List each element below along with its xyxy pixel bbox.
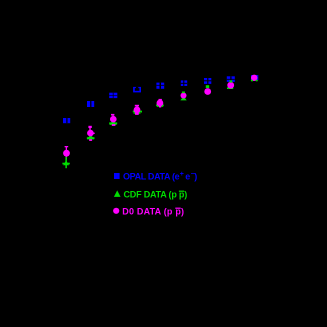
svg-text:OPAL DATA (e: OPAL DATA (e (123, 171, 180, 181)
data point 5 D0 error bar (159, 99, 162, 107)
data point 2 D0 circle marker (87, 130, 95, 137)
data point 6 OPAL square marker (181, 80, 187, 86)
legend CDF triangle swatch (114, 190, 121, 197)
svg-text:): ) (194, 171, 197, 181)
legend label CDF DATA (p pbar) (124, 190, 188, 200)
data point 1 D0 error bar (65, 146, 69, 160)
data point 4 D0 circle marker (134, 107, 141, 114)
legend label D0 DATA (p pbar) (122, 207, 184, 217)
data point 9 OPAL square marker (251, 75, 258, 80)
data point 4 D0 error bar (135, 105, 139, 115)
data point 8 CDF triangle apex (230, 80, 233, 82)
legend label OPAL DATA (e+ e-) (123, 171, 197, 181)
data point 4 CDF triangle marker (133, 109, 142, 114)
data point 3 OPAL square marker (109, 93, 117, 98)
data point 3 D0 lower error cap (112, 124, 116, 126)
data point 3 CDF triangle marker (109, 120, 117, 125)
data point 9 D0 circle marker (251, 75, 257, 81)
data point 2 CDF triangle marker (87, 134, 95, 139)
data point 4 D0 lower error cap (135, 113, 139, 115)
data point 5 OPAL square marker (156, 83, 164, 89)
legend OPAL square swatch (114, 173, 120, 179)
legend D0 circle swatch (113, 208, 119, 214)
svg-text:+: + (180, 171, 184, 178)
data point 1 D0 circle marker (63, 150, 70, 157)
data point 3 D0 circle marker (110, 116, 117, 123)
data point 6 CDF triangle marker (180, 96, 186, 100)
data point 1 CDF triangle marker (62, 160, 69, 165)
data point 1 CDF error bar (65, 157, 67, 168)
data point 2 D0 error bar (88, 126, 91, 141)
data point 8 CDF triangle base (227, 87, 233, 89)
data point 5 D0 lower error cap (159, 106, 161, 108)
svg-text:CDF DATA (p p): CDF DATA (p p) (124, 190, 188, 200)
data point 6 D0 circle marker (181, 93, 187, 99)
data point 7 CDF triangle apex (206, 85, 209, 88)
data point 7 D0 circle marker (204, 88, 211, 95)
data point 9 CDF triangle base corners (251, 80, 258, 82)
data point 8 OPAL square marker (227, 76, 235, 82)
data point 7 OPAL square marker (204, 78, 211, 84)
data point 4 OPAL square marker (133, 87, 141, 93)
svg-text:e: e (185, 171, 190, 181)
data point 2 OPAL square marker (87, 101, 94, 107)
data point 2 D0 lower error cap (89, 139, 92, 141)
svg-text:D0 DATA (p p): D0 DATA (p p) (122, 207, 184, 217)
data point 3 D0 error bar (111, 114, 114, 126)
data point 8 D0 circle marker (227, 82, 234, 89)
data point 5 D0 circle marker (157, 100, 164, 107)
data point 6 CDF upper error cap (182, 92, 185, 94)
data point 5 CDF triangle marker (156, 102, 164, 107)
data point 1 OPAL square marker (63, 118, 70, 123)
